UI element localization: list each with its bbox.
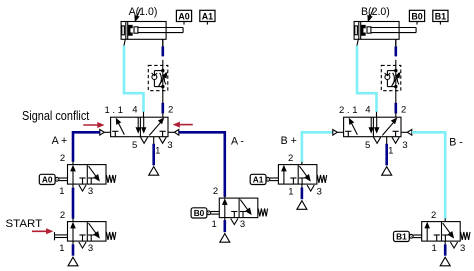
pin label 2 (valve B0) [213, 186, 218, 197]
wire stub valve 1.1 port 4 [143, 112, 145, 117]
tag B1 [394, 231, 422, 241]
tag A1 [250, 174, 278, 184]
cylinder A(1.0) [121, 22, 183, 47]
svg-text:2: 2 [431, 210, 436, 221]
wire stub valve A0 port 2 [72, 161, 74, 164]
wire cylinder B cap-side tube (cyan) [357, 46, 377, 112]
pin label 3 (valve A0) [88, 186, 93, 197]
label 2 . 1 [339, 105, 358, 116]
wire stub valve B0 port 2 [224, 196, 226, 198]
wire valve B0 port 1 to supply (navy) [224, 218, 226, 233]
svg-text:Signal conflict: Signal conflict [22, 109, 90, 123]
pin label 3 (valve 2.1) [402, 140, 407, 151]
pin label 4 (valve 1.1) [132, 105, 137, 116]
valve A1 (3/2 roller) [278, 165, 326, 192]
tag B0 [191, 208, 219, 218]
flow control valve A [148, 65, 168, 90]
label B + [281, 135, 297, 147]
pin label 3 (valve START) [88, 243, 93, 254]
svg-text:1: 1 [288, 187, 293, 198]
wire cylinder A cap-side tube (cyan) [124, 46, 144, 112]
pin label 1 (valve B0) [211, 219, 216, 230]
svg-text:2: 2 [60, 153, 65, 164]
svg-text:1 . 1: 1 . 1 [105, 105, 124, 116]
wire flow-control to valve 2.1 port 2 (navy) [394, 103, 397, 114]
flow control valve B [381, 65, 401, 90]
valve B1 (3/2 roller) [422, 222, 470, 249]
wire flow-control to valve 1.1 port 2 (navy) [162, 103, 165, 114]
marker box B0 [409, 10, 424, 24]
marker box A1 [200, 10, 215, 24]
label B - [449, 136, 463, 148]
svg-text:5: 5 [365, 140, 370, 151]
svg-text:A(1.0): A(1.0) [129, 6, 158, 18]
label A - [231, 135, 244, 147]
svg-text:B1: B1 [396, 232, 407, 242]
wire stub valve B1 port 2 [444, 218, 446, 221]
wire cylinder B rod-side tube (navy) [394, 46, 397, 56]
svg-text:1: 1 [155, 146, 160, 157]
svg-text:A1: A1 [253, 175, 264, 185]
svg-text:B -: B - [449, 136, 463, 148]
pin label 4 (valve 2.1) [365, 105, 370, 116]
svg-text:3: 3 [460, 243, 465, 254]
svg-text:3: 3 [88, 186, 93, 197]
svg-text:4: 4 [365, 105, 370, 116]
pin label 3 (valve B0) [240, 219, 245, 230]
svg-text:3: 3 [88, 243, 93, 254]
pressure source B1 [440, 257, 450, 266]
wire stub cylinder B right port [395, 39, 397, 117]
wire cylinder A rod-side tube (navy) [162, 46, 165, 56]
svg-text:A +: A + [52, 135, 68, 147]
svg-text:1: 1 [388, 146, 393, 157]
label START [6, 218, 43, 230]
pin label 1 (valve B1) [432, 243, 437, 254]
svg-text:2: 2 [288, 153, 293, 164]
valve B0 (3/2 roller) [219, 198, 267, 225]
pin label 2 (valve 1.1) [168, 105, 173, 116]
svg-text:A0: A0 [178, 11, 189, 21]
wire B+ pilot line (cyan) [302, 132, 333, 162]
pin label 3 (valve 1.1) [167, 140, 172, 151]
svg-text:A1: A1 [202, 11, 213, 21]
svg-text:1: 1 [211, 219, 216, 230]
label 1 . 1 [105, 105, 124, 116]
pin label 2 (valve 2.1) [401, 105, 406, 116]
wire stub cylinder A right port [162, 39, 164, 117]
svg-text:1: 1 [432, 243, 437, 254]
wire valve START port 1 to supply (navy) [72, 241, 74, 256]
label A + [52, 135, 68, 147]
svg-text:A0: A0 [42, 175, 53, 185]
svg-text:2: 2 [60, 210, 65, 221]
svg-text:B1: B1 [435, 11, 446, 21]
pin label 1 (valve START) [59, 243, 64, 254]
svg-text:2: 2 [401, 105, 406, 116]
pin label 1 (valve A0) [59, 186, 64, 197]
pin label 5 (valve 1.1) [132, 140, 137, 151]
pressure source valve 2.1 [382, 167, 392, 176]
svg-text:4: 4 [132, 105, 137, 116]
pressure source B0 [220, 234, 230, 243]
svg-text:2: 2 [213, 186, 218, 197]
wire A+ pilot line (navy) [73, 132, 100, 161]
label Signal conflict [22, 109, 90, 123]
label B(2.0) [361, 6, 390, 21]
valve START (3/2 pushbutton) [68, 222, 116, 249]
svg-text:START: START [6, 218, 43, 230]
label A(1.0) [129, 6, 158, 21]
pin label 1 (valve 2.1) [388, 146, 393, 157]
svg-text:B(2.0): B(2.0) [361, 6, 390, 18]
marker box A0 [176, 10, 191, 24]
pin label 2 (valve A0) [60, 153, 65, 164]
svg-text:3: 3 [240, 219, 245, 230]
pin label 3 (valve A1) [317, 187, 322, 198]
svg-text:2 . 1: 2 . 1 [339, 105, 358, 116]
wire A- pilot line (navy) [179, 132, 225, 197]
svg-text:3: 3 [317, 187, 322, 198]
pin label 2 (valve A1) [288, 153, 293, 164]
pin label 5 (valve 2.1) [365, 140, 370, 151]
signal-conflict arrow left (valve 1.1) [83, 123, 103, 128]
wire valve 2.1 port 1 to supply (navy) [386, 137, 388, 166]
manual-override arrow START [32, 229, 52, 234]
wire stub valve A1 port 2 [301, 162, 303, 165]
pressure source A1 [297, 201, 307, 210]
svg-text:3: 3 [167, 140, 172, 151]
marker box B1 [433, 10, 448, 24]
svg-text:1: 1 [59, 243, 64, 254]
pressure source START [68, 257, 78, 266]
pushbutton actuator START [55, 232, 68, 240]
pin label 2 (valve START) [60, 210, 65, 221]
wire B- pilot line (cyan) [412, 132, 445, 219]
tag A0 [39, 174, 67, 184]
cylinder B(2.0) [354, 22, 416, 47]
svg-text:1: 1 [59, 186, 64, 197]
svg-text:2: 2 [168, 105, 173, 116]
pin label 3 (valve B1) [460, 243, 465, 254]
wire valve A1 port 1 to supply (navy) [301, 184, 303, 199]
pressure source valve 1.1 [149, 167, 159, 176]
svg-text:5: 5 [132, 140, 137, 151]
svg-text:B0: B0 [411, 11, 422, 21]
wire stub valve 2.1 port 4 [376, 112, 378, 117]
svg-text:A -: A - [231, 135, 244, 147]
valve A0 (3/2 roller) [68, 165, 116, 192]
valve U2.1 (5/2 impulse valve B) [333, 117, 412, 143]
svg-text:B +: B + [281, 135, 297, 147]
pin label 1 (valve 1.1) [155, 146, 160, 157]
svg-text:B0: B0 [194, 208, 205, 218]
wire valve A0 port1 to START port2 (navy) [72, 184, 74, 222]
valve U1.1 (5/2 impulse valve A) [100, 117, 179, 143]
svg-text:3: 3 [402, 140, 407, 151]
signal-conflict arrow right (valve 1.1) [174, 122, 193, 127]
wire valve 1.1 port 1 to supply (navy) [153, 137, 155, 166]
wire valve B1 port 1 to supply (navy) [444, 241, 446, 256]
pin label 1 (valve A1) [288, 187, 293, 198]
pin label 2 (valve B1) [431, 210, 436, 221]
